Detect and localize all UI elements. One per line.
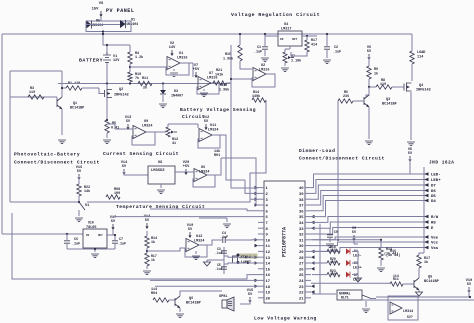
ground mid bbox=[199, 218, 231, 228]
wire 7805 gnd stem bbox=[67, 248, 115, 252]
wire rail to D3 bbox=[152, 82, 164, 84]
wire U12 feedback bbox=[185, 245, 207, 260]
diode D1 1N5404 bbox=[120, 19, 138, 29]
wire Q3 collector bbox=[366, 87, 369, 97]
text low voltage warning bbox=[254, 316, 317, 322]
text current sensing circuit bbox=[103, 151, 179, 157]
ic U3 PIC16F877A body bbox=[264, 181, 305, 303]
wire pot to U11 bbox=[168, 124, 198, 128]
svg-text:Connect/Disconnect Circuit: Connect/Disconnect Circuit bbox=[14, 160, 100, 166]
svg-text:D5: D5 bbox=[96, 20, 100, 24]
svg-text:Vcc: Vcc bbox=[431, 242, 439, 246]
capacitor C2 .1uF bbox=[323, 33, 341, 64]
diode D5 1N5404 bbox=[86, 20, 103, 29]
wire xtal to pin13 bbox=[224, 256, 258, 258]
svg-text:2k: 2k bbox=[143, 86, 147, 91]
svg-text:D6: D6 bbox=[431, 190, 436, 194]
svg-text:14V: 14V bbox=[169, 46, 176, 50]
wire U12 out bbox=[199, 240, 217, 245]
svg-text:LM324: LM324 bbox=[142, 125, 153, 129]
svg-text:U12: U12 bbox=[196, 235, 202, 239]
ground D3 bbox=[159, 104, 167, 108]
text JHD 162A bbox=[429, 161, 454, 166]
svg-text:236: 236 bbox=[343, 95, 349, 99]
wire 7805 rail bbox=[62, 233, 106, 235]
svg-text:10: 10 bbox=[266, 239, 271, 243]
resistor R08 100 bbox=[106, 188, 120, 199]
svg-text:U10: U10 bbox=[88, 221, 94, 225]
svg-text:Voltage Regulation Circuit: Voltage Regulation Circuit bbox=[231, 12, 320, 18]
resistor R17 414 bbox=[305, 36, 317, 52]
svg-text:LED-: LED- bbox=[431, 174, 441, 178]
ic U3 left pins bbox=[258, 187, 271, 301]
svg-text:IN: IN bbox=[86, 234, 90, 237]
svg-text:R04: R04 bbox=[151, 292, 157, 296]
svg-text:7k: 7k bbox=[135, 76, 139, 81]
wire diode loop join bbox=[102, 30, 104, 35]
svg-text:27: 27 bbox=[299, 263, 304, 267]
resistor R17b 1k bbox=[417, 255, 430, 278]
supply V17 out bbox=[110, 216, 116, 235]
svg-text:Q3: Q3 bbox=[386, 98, 390, 102]
wire R10 to rail bbox=[129, 82, 131, 84]
svg-text:12V: 12V bbox=[113, 59, 120, 63]
svg-text:D5: D5 bbox=[431, 195, 436, 199]
resistor R4 1.2k bbox=[128, 52, 143, 64]
diode D3 1N4007 bbox=[160, 90, 183, 99]
wire net to pin3 bbox=[250, 104, 266, 199]
switch S1 bbox=[79, 202, 89, 210]
svg-text:SPKL: SPKL bbox=[219, 295, 228, 299]
wire bundle PIC to LCD bbox=[311, 174, 424, 251]
svg-text:11: 11 bbox=[266, 245, 271, 249]
svg-text:17: 17 bbox=[266, 280, 271, 284]
wire xtal stem bbox=[223, 247, 225, 274]
wire relay gnd bbox=[365, 301, 367, 307]
wire net to pin1 bbox=[231, 100, 258, 188]
svg-text:R17: R17 bbox=[311, 39, 317, 43]
wire R21 out bbox=[226, 83, 231, 100]
text R16 1k note bbox=[386, 250, 400, 258]
potentiometer R12 41 bbox=[166, 127, 178, 146]
svg-text:13: 13 bbox=[266, 257, 271, 261]
text PIC16F877A bbox=[282, 227, 288, 257]
svg-text:38: 38 bbox=[299, 199, 304, 203]
op-amp U9 LM324 bbox=[133, 120, 153, 139]
ground q5 bbox=[416, 292, 423, 296]
ground LM35 bbox=[157, 184, 165, 194]
wire pin35 vertical bbox=[319, 224, 321, 294]
svg-text:.1uF: .1uF bbox=[118, 243, 126, 247]
text SPKL bbox=[219, 295, 228, 299]
resistor R5 0.41 shunt bbox=[105, 120, 119, 133]
wire speaker net bbox=[240, 299, 250, 304]
wire pin19 long rail bbox=[155, 285, 258, 287]
svg-text:.1uF: .1uF bbox=[215, 267, 223, 271]
capacitor C9 bbox=[327, 228, 338, 243]
wire net to pin4 bbox=[221, 158, 258, 205]
svg-text:JHD 162A: JHD 162A bbox=[429, 161, 454, 166]
svg-text:119: 119 bbox=[330, 248, 336, 252]
svg-text:19: 19 bbox=[266, 292, 271, 296]
svg-text:+5V: +5V bbox=[193, 68, 200, 72]
svg-text:C9: C9 bbox=[334, 230, 338, 234]
ground leds bbox=[355, 278, 362, 282]
svg-text:R01: R01 bbox=[214, 154, 220, 158]
svg-text:Q1: Q1 bbox=[73, 102, 77, 106]
node VS PV panel label bbox=[92, 2, 135, 17]
capacitor C6 .1uF bbox=[64, 234, 80, 249]
capacitor C4 .1uF bbox=[217, 232, 230, 243]
text voltage regulation circuit bbox=[231, 12, 320, 18]
svg-text:114: 114 bbox=[393, 274, 399, 278]
svg-text:34: 34 bbox=[299, 222, 304, 226]
wire pin rail to relay bbox=[312, 293, 336, 295]
wire left frame bottom to 7805 bbox=[2, 233, 62, 235]
svg-text:78L05: 78L05 bbox=[86, 226, 97, 230]
wire R4 divider stem bbox=[129, 45, 131, 52]
svg-text:LM324: LM324 bbox=[199, 171, 210, 175]
wire switch node bbox=[78, 196, 80, 203]
svg-text:Q5: Q5 bbox=[428, 276, 432, 280]
svg-text:D7: D7 bbox=[431, 185, 436, 189]
svg-text:1k: 1k bbox=[151, 240, 155, 245]
svg-text:Q4: Q4 bbox=[419, 84, 423, 88]
wire q6 collector bbox=[180, 291, 222, 296]
wire led nets bbox=[312, 251, 327, 274]
svg-text:Vss: Vss bbox=[431, 247, 439, 251]
transistor Q1 BC141BP bbox=[46, 97, 84, 111]
svg-text:Low Voltage Warning: Low Voltage Warning bbox=[254, 316, 317, 322]
wire xtal to pin14 bbox=[224, 262, 258, 264]
wire vertical x231 bbox=[230, 45, 232, 100]
svg-text:LM35DZ: LM35DZ bbox=[151, 169, 165, 173]
svg-text:OUT: OUT bbox=[98, 234, 103, 237]
resistor R11b 114 bbox=[390, 274, 414, 286]
op-amp U12 LM324 bbox=[186, 235, 205, 252]
svg-text:Current Sensing Circuit: Current Sensing Circuit bbox=[103, 151, 179, 157]
mosfet Q2 IRF5142 bbox=[99, 88, 129, 98]
wire shunt to ground bbox=[106, 133, 108, 138]
wire q5 emitter bbox=[418, 290, 420, 292]
resistor R13 1.95k bbox=[219, 84, 229, 93]
resistor R3 119 bbox=[28, 87, 44, 99]
svg-text:37: 37 bbox=[299, 205, 304, 209]
svg-text:.1uF: .1uF bbox=[215, 251, 223, 255]
svg-text:LED-: LED- bbox=[353, 255, 362, 259]
relay RLY1 bbox=[337, 290, 362, 300]
text temperature sensing circuit bbox=[116, 204, 205, 210]
svg-text:Q6: Q6 bbox=[189, 297, 193, 301]
svg-text:U2: U2 bbox=[261, 64, 265, 68]
svg-text:1.95k: 1.95k bbox=[223, 57, 233, 62]
transistor Q5 BC141BP bbox=[414, 276, 439, 291]
svg-text:1N5404: 1N5404 bbox=[126, 23, 138, 27]
svg-text:U6: U6 bbox=[201, 166, 205, 170]
capacitor C1 .1uF bbox=[254, 36, 269, 62]
wire U2 feedback bbox=[252, 74, 275, 87]
ic U10 7805 bbox=[83, 221, 107, 249]
svg-text:LOAD: LOAD bbox=[417, 51, 425, 55]
svg-text:IN: IN bbox=[280, 38, 284, 41]
svg-text:Dimmer-Load: Dimmer-Load bbox=[299, 148, 335, 154]
svg-text:39: 39 bbox=[299, 193, 304, 197]
svg-text:Vee: Vee bbox=[431, 237, 439, 241]
wire R15 bottom bbox=[240, 61, 252, 69]
wire lcd frame bbox=[423, 167, 425, 250]
supply V16 5V bbox=[76, 166, 82, 180]
wire battery bottom bbox=[106, 63, 108, 83]
resistor R11 2k bbox=[138, 77, 152, 91]
svg-text:Circuit: Circuit bbox=[182, 114, 205, 120]
svg-text:Photovoltaic-Battery: Photovoltaic-Battery bbox=[14, 152, 80, 158]
wire inner frame bottom bbox=[10, 201, 79, 203]
wire U6 in bbox=[175, 171, 194, 173]
resistor R6 236 bbox=[338, 91, 364, 104]
resistor R23 119 bbox=[327, 269, 340, 277]
wire D3 stem bbox=[162, 84, 164, 91]
wire S1 to pic reset bbox=[87, 200, 250, 202]
capacitor C5 22pF bbox=[215, 263, 227, 271]
wire tap to U1 bbox=[130, 66, 166, 68]
resistor R20 119 bbox=[327, 257, 340, 265]
svg-text:26: 26 bbox=[299, 268, 304, 272]
resistor R04 114 bbox=[151, 288, 169, 302]
ground xtal bbox=[204, 260, 211, 266]
svg-text:1.95k: 1.95k bbox=[219, 88, 229, 93]
capacitor C3 22pF bbox=[215, 247, 227, 255]
svg-text:LM324: LM324 bbox=[194, 240, 205, 244]
svg-text:S1: S1 bbox=[85, 204, 89, 208]
wire V6 stem bbox=[368, 56, 370, 66]
svg-text:21: 21 bbox=[299, 297, 304, 301]
wire pin30 net bbox=[312, 239, 382, 248]
svg-text:41: 41 bbox=[172, 142, 176, 146]
wire bottom long rail bbox=[12, 213, 220, 279]
wire D3 to ground bbox=[162, 95, 164, 102]
wire R14 node bbox=[146, 248, 186, 253]
svg-text:BC141BP: BC141BP bbox=[70, 107, 84, 111]
svg-text:BC141BP: BC141BP bbox=[186, 302, 201, 306]
wire battery low rail bbox=[58, 82, 230, 84]
svg-text:LED+: LED+ bbox=[431, 179, 441, 183]
resistor R8 119 bbox=[376, 79, 392, 89]
svg-text:U4: U4 bbox=[284, 23, 288, 27]
wire Q2 drain bbox=[106, 84, 108, 90]
resistor R18 119 bbox=[327, 245, 340, 254]
wire battery top drop bbox=[102, 33, 130, 45]
svg-text:LM324: LM324 bbox=[208, 129, 219, 133]
wire lcd to R17 bbox=[419, 250, 424, 255]
svg-text:IRF5142: IRF5142 bbox=[114, 94, 129, 98]
wire gate feed bbox=[392, 86, 404, 88]
wire net to pin2 bbox=[245, 180, 258, 193]
ground C9 bbox=[326, 244, 334, 248]
wire switch to gnd bbox=[78, 210, 80, 216]
wire R15 top bbox=[239, 33, 241, 45]
svg-text:LM316: LM316 bbox=[177, 57, 188, 61]
wire lm35 vcc bbox=[124, 171, 148, 175]
wire U11 out bbox=[212, 135, 245, 180]
svg-text:119: 119 bbox=[29, 91, 35, 95]
text XTAL1 14MHZ bbox=[240, 254, 258, 266]
supply V10 bbox=[466, 279, 472, 297]
svg-text:R/W: R/W bbox=[431, 215, 439, 220]
svg-text:25: 25 bbox=[299, 274, 304, 278]
wire shunt stem bbox=[106, 105, 108, 121]
svg-text:35: 35 bbox=[299, 216, 304, 220]
wire V9 stem bbox=[354, 237, 358, 244]
svg-text:1k: 1k bbox=[374, 72, 378, 77]
op-amp U2 LM316 bbox=[253, 64, 270, 81]
resistor R1 119 bbox=[66, 82, 82, 90]
wire net to pin5 bbox=[150, 209, 258, 211]
svg-text:D1: D1 bbox=[131, 19, 135, 23]
svg-text:14k: 14k bbox=[84, 189, 90, 194]
ground lcd vee bbox=[418, 236, 424, 238]
ground R17c bbox=[143, 266, 151, 275]
resistor R22 14k bbox=[77, 184, 90, 196]
wire diode loop bbox=[86, 21, 131, 32]
svg-text:R13: R13 bbox=[221, 84, 227, 88]
svg-text:16: 16 bbox=[266, 274, 271, 278]
wire U9 in bbox=[107, 124, 133, 129]
svg-text:33: 33 bbox=[299, 228, 304, 232]
wire inner frame top bbox=[10, 70, 58, 72]
svg-text:23: 23 bbox=[299, 286, 304, 290]
svg-text:LM317: LM317 bbox=[281, 28, 292, 32]
wire divider tap bbox=[129, 64, 131, 72]
supply V19 5V bbox=[187, 224, 193, 238]
svg-text:R21: R21 bbox=[216, 69, 222, 73]
svg-text:VS: VS bbox=[99, 2, 104, 6]
text battery voltage sensing bbox=[180, 107, 256, 120]
svg-text:119: 119 bbox=[330, 272, 336, 276]
wire Q1 emitter bbox=[61, 109, 63, 135]
wire load branch bbox=[411, 34, 413, 51]
svg-text:5V?: 5V? bbox=[407, 315, 413, 319]
svg-text:32: 32 bbox=[299, 234, 304, 238]
supply V20 5V bbox=[183, 161, 190, 175]
text photovoltaic-battery bbox=[14, 152, 100, 166]
svg-text:30: 30 bbox=[299, 245, 304, 249]
ic U3 right pins bbox=[299, 187, 311, 301]
wire load to drain bbox=[411, 64, 413, 81]
led D6 red bbox=[346, 260, 362, 271]
svg-text:1k: 1k bbox=[151, 258, 155, 262]
svg-text:D4: D4 bbox=[431, 200, 436, 204]
wire U6 out bbox=[207, 158, 221, 175]
wire U6 feedback bbox=[193, 175, 215, 187]
op-amp U6 LM324 bbox=[194, 166, 210, 182]
op-amp U11 LM324 bbox=[199, 124, 219, 142]
led D4 red bbox=[346, 248, 362, 258]
resistor R21 141k bbox=[213, 69, 226, 85]
svg-text:1.10k: 1.10k bbox=[291, 59, 301, 64]
svg-text:PV PANEL: PV PANEL bbox=[106, 8, 134, 14]
wire PV panel stub bbox=[100, 17, 102, 21]
svg-text:RLY1: RLY1 bbox=[341, 296, 349, 300]
wire inner frame vertical bbox=[9, 71, 11, 202]
wire R17 down bbox=[291, 52, 307, 56]
svg-text:114: 114 bbox=[151, 288, 157, 292]
svg-text:OUT: OUT bbox=[292, 38, 297, 41]
svg-text:U11: U11 bbox=[210, 124, 216, 128]
resistor R10 7k bbox=[128, 72, 141, 82]
wire R7 gnd bbox=[284, 63, 286, 66]
ground shunt bbox=[103, 140, 111, 144]
svg-text:LED+: LED+ bbox=[353, 267, 362, 271]
svg-text:Connect/Disconnect Circuit: Connect/Disconnect Circuit bbox=[299, 156, 385, 162]
svg-text:15: 15 bbox=[266, 268, 271, 272]
svg-text:22: 22 bbox=[299, 292, 304, 296]
svg-text:U7: U7 bbox=[209, 72, 213, 76]
wire U1 feedback box bbox=[166, 63, 189, 75]
svg-text:.1uF: .1uF bbox=[72, 243, 80, 247]
wire R1 to Q2 gate bbox=[82, 87, 99, 89]
text dimmer-load bbox=[299, 148, 385, 162]
svg-text:.1uF: .1uF bbox=[220, 236, 228, 240]
svg-text:C2: C2 bbox=[334, 46, 338, 50]
svg-text:28: 28 bbox=[299, 257, 304, 261]
ground Q1 emitter bbox=[58, 140, 66, 144]
wire U2 left net bbox=[231, 78, 253, 80]
wire diode loop top bbox=[86, 20, 131, 22]
svg-text:24: 24 bbox=[299, 280, 304, 284]
wire Q2 source bbox=[106, 98, 108, 105]
ic U4 LM317 bbox=[278, 23, 302, 46]
resistor R24 1k44 bbox=[379, 248, 398, 260]
wire battery stem bbox=[106, 44, 108, 53]
op-amp U1 LM316 bbox=[167, 52, 188, 77]
svg-text:IRF5142: IRF5142 bbox=[416, 89, 431, 93]
ground S1 bbox=[75, 218, 83, 222]
svg-text:31: 31 bbox=[299, 239, 304, 243]
svg-text:R11: R11 bbox=[142, 77, 148, 81]
ground 7805 bbox=[91, 254, 99, 258]
ground Q4 bbox=[407, 142, 415, 146]
resistor R9 1k bbox=[367, 66, 378, 79]
supply V13 5V bbox=[125, 116, 131, 130]
capacitor C7 .1uF bbox=[106, 234, 126, 249]
svg-text:C7: C7 bbox=[119, 238, 123, 242]
wire U11 feedback bbox=[198, 135, 220, 148]
wire Q3 emitter bbox=[365, 107, 373, 145]
transistor Q3 BC141BF bbox=[364, 95, 397, 107]
junction arrows right pins bbox=[311, 215, 315, 294]
ground R7 bbox=[281, 68, 289, 72]
resistor R14b 1k bbox=[145, 231, 157, 248]
svg-text:LM316: LM316 bbox=[259, 69, 270, 73]
ground relay bbox=[362, 309, 370, 313]
op-amp U13 LM314 bbox=[388, 296, 418, 320]
potentiometer R7 1.10k bbox=[283, 46, 301, 64]
wire bottom right rails bbox=[362, 296, 474, 300]
lcd pin labels bbox=[424, 172, 441, 251]
supply V2 14V bbox=[169, 42, 176, 56]
svg-text:C1: C1 bbox=[257, 46, 261, 50]
crystal X1 bbox=[233, 254, 240, 265]
svg-text:D3: D3 bbox=[174, 90, 178, 94]
svg-text:.1uF: .1uF bbox=[333, 51, 341, 55]
svg-text:29: 29 bbox=[299, 251, 304, 255]
wire V16 stem bbox=[78, 176, 80, 184]
wire pin17 rail bbox=[12, 275, 258, 279]
text BATTERY bbox=[79, 58, 103, 64]
svg-text:Battery Voltage Sensing: Battery Voltage Sensing bbox=[180, 107, 256, 113]
wire U7 feedback bbox=[197, 83, 219, 94]
wire R6 left bbox=[337, 104, 339, 241]
